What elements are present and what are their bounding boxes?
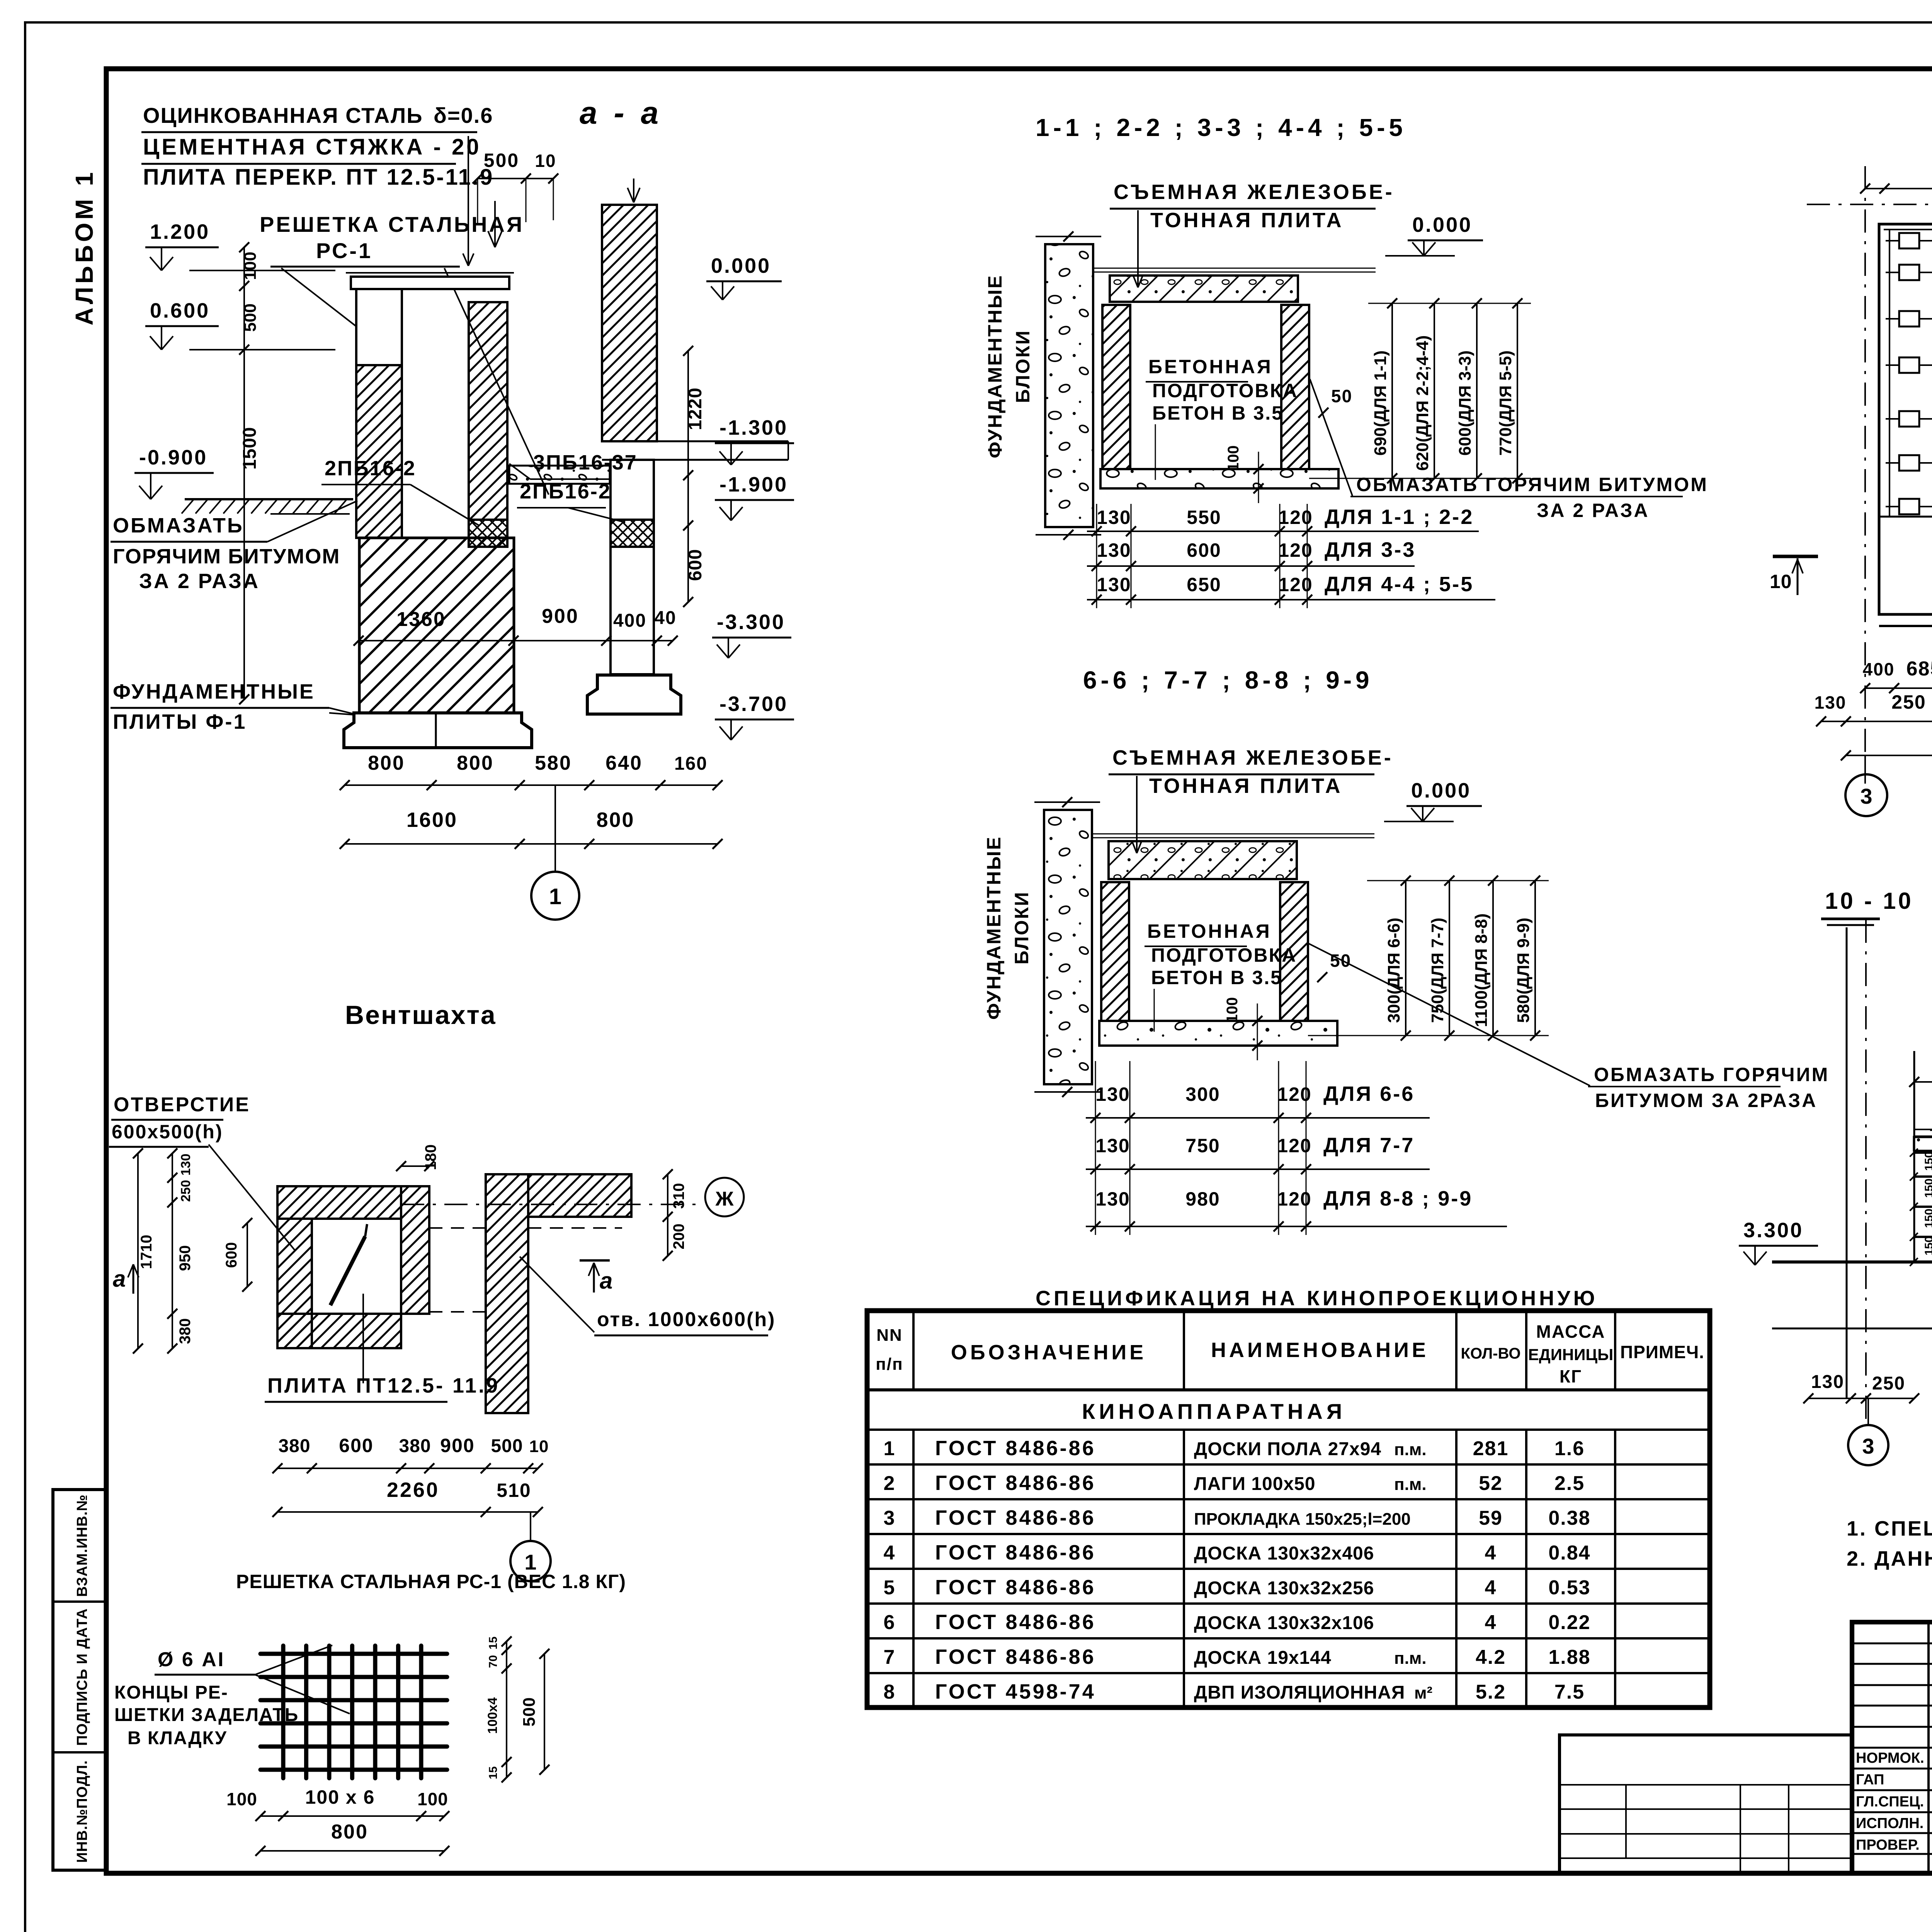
svg-text:ФУНДАМЕНТНЫЕ: ФУНДАМЕНТНЫЕ <box>983 836 1005 1020</box>
shaft left wall hatched <box>356 365 402 538</box>
svg-text:800: 800 <box>331 1821 368 1843</box>
svg-text:160: 160 <box>674 753 707 774</box>
svg-text:70: 70 <box>487 1655 500 1668</box>
svg-text:100х4: 100х4 <box>485 1697 500 1734</box>
svg-text:п.м.: п.м. <box>1394 1649 1427 1668</box>
axis circle Zh <box>401 1204 703 1205</box>
svg-text:1500: 1500 <box>240 427 260 470</box>
step dim ticks left <box>1910 1149 1918 1157</box>
svg-text:ШЕТКИ ЗАДЕЛАТЬ: ШЕТКИ ЗАДЕЛАТЬ <box>114 1705 299 1725</box>
svg-text:250: 250 <box>179 1180 193 1202</box>
svg-text:ОБМАЗАТЬ ГОРЯЧИМ: ОБМАЗАТЬ ГОРЯЧИМ <box>1594 1064 1829 1085</box>
svg-text:15: 15 <box>487 1766 500 1779</box>
svg-text:100: 100 <box>1225 446 1242 471</box>
left footing trapezoid <box>344 713 532 748</box>
svg-text:СЪЕМНАЯ ЖЕЛЕЗОБЕ-: СЪЕМНАЯ ЖЕЛЕЗОБЕ- <box>1112 746 1393 769</box>
svg-text:ТОННАЯ ПЛИТА: ТОННАЯ ПЛИТА <box>1149 774 1343 798</box>
svg-text:0.84: 0.84 <box>1548 1542 1590 1564</box>
svg-text:800: 800 <box>368 752 405 774</box>
grate bars <box>281 1646 286 1778</box>
svg-text:8: 8 <box>884 1681 896 1703</box>
svg-text:4: 4 <box>1485 1577 1497 1599</box>
svg-text:550: 550 <box>1187 507 1221 528</box>
svg-text:130: 130 <box>1097 539 1131 561</box>
floor slab with tile <box>1914 1137 1932 1151</box>
svg-text:ПОДПИСЬ И ДАТА: ПОДПИСЬ И ДАТА <box>74 1608 90 1746</box>
svg-text:640: 640 <box>605 752 643 774</box>
svg-text:КГ: КГ <box>1560 1366 1582 1386</box>
svg-text:-1.300: -1.300 <box>719 416 788 439</box>
svg-text:2. ДАННЫЙ ЛИСТ СМОТРЕТЬ СОВ: 2. ДАННЫЙ ЛИСТ СМОТРЕТЬ СОВМЕСТНО С ЛИСТ… <box>1847 1547 1932 1570</box>
upper floor boards line <box>1914 1129 1932 1130</box>
svg-text:620(ДЛЯ 2-2;4-4): 620(ДЛЯ 2-2;4-4) <box>1413 335 1432 471</box>
svg-text:130: 130 <box>1095 1188 1130 1210</box>
right footing trapezoid <box>587 675 681 714</box>
svg-text:КОЛ-ВО: КОЛ-ВО <box>1461 1345 1521 1362</box>
svg-text:ДОСКА 130х32х106: ДОСКА 130х32х106 <box>1194 1613 1374 1633</box>
ventshahta bottom dim row2 <box>277 1511 538 1513</box>
sec6699 top removable slab hatched <box>1109 841 1297 879</box>
svg-text:АЛЬБОМ 1: АЛЬБОМ 1 <box>70 169 98 325</box>
svg-text:10: 10 <box>529 1437 549 1456</box>
svg-text:ОЦИНКОВАННАЯ СТАЛЬ: ОЦИНКОВАННАЯ СТАЛЬ <box>143 103 423 128</box>
svg-text:ПОДГОТОВКА: ПОДГОТОВКА <box>1152 380 1298 401</box>
ventshahta bottom wall hatched <box>277 1314 401 1348</box>
svg-text:0.000: 0.000 <box>1412 213 1472 236</box>
sec6699 right vertical depth dims <box>1405 881 1406 1036</box>
sec1155 right channel wall hatched <box>1281 305 1309 469</box>
plan room bottom wall lines <box>1879 625 1932 627</box>
svg-text:ДЛЯ 6-6: ДЛЯ 6-6 <box>1323 1082 1415 1105</box>
svg-text:ИНВ.№ПОДЛ.: ИНВ.№ПОДЛ. <box>74 1760 90 1863</box>
sec1155 top removable slab hatched <box>1110 276 1298 302</box>
svg-text:БЕТОННАЯ: БЕТОННАЯ <box>1148 356 1273 378</box>
svg-text:4: 4 <box>1485 1611 1497 1634</box>
specification table kinoapparatnaya row line <box>867 1429 1710 1431</box>
svg-text:ДЛЯ 8-8 ; 9-9: ДЛЯ 8-8 ; 9-9 <box>1323 1187 1473 1210</box>
specification table outer border <box>867 1311 1710 1708</box>
svg-text:10 - 10: 10 - 10 <box>1825 888 1913 914</box>
svg-text:380: 380 <box>278 1436 310 1456</box>
svg-text:300: 300 <box>1185 1083 1220 1105</box>
svg-text:ГОСТ 8486-86: ГОСТ 8486-86 <box>935 1437 1096 1460</box>
svg-text:3: 3 <box>1862 1434 1874 1458</box>
svg-text:РС-1: РС-1 <box>316 238 372 263</box>
svg-text:130: 130 <box>1097 574 1131 595</box>
svg-text:NN: NN <box>876 1326 903 1345</box>
axis circle 1 section a-a <box>554 785 556 872</box>
svg-text:1220: 1220 <box>685 388 706 430</box>
svg-text:ПОДГОТОВКА: ПОДГОТОВКА <box>1151 944 1297 966</box>
section cut mark 10 left of plan <box>1773 555 1818 558</box>
svg-text:-0.900: -0.900 <box>139 446 207 469</box>
shaft left wall upper part <box>356 289 402 365</box>
svg-text:6: 6 <box>884 1611 896 1634</box>
ventshahta right tall wall hatched <box>486 1174 528 1413</box>
svg-text:300(ДЛЯ 6-6): 300(ДЛЯ 6-6) <box>1384 918 1403 1023</box>
svg-text:500: 500 <box>520 1697 539 1726</box>
section mark a bottom <box>580 1259 610 1262</box>
right column lower part <box>611 460 654 674</box>
svg-text:ГАП: ГАП <box>1856 1772 1884 1788</box>
svg-text:СПЕЦИФИКАЦИЯ НА КИНОПРОЕКЦИО: СПЕЦИФИКАЦИЯ НА КИНОПРОЕКЦИОННУЮ <box>1036 1287 1598 1310</box>
svg-text:750(ДЛЯ 7-7): 750(ДЛЯ 7-7) <box>1428 918 1447 1023</box>
svg-text:150: 150 <box>1923 1179 1932 1198</box>
right column hatched upper <box>602 205 657 441</box>
sec1155 left channel wall hatched <box>1102 305 1130 469</box>
svg-text:600х500(h): 600х500(h) <box>112 1121 223 1143</box>
svg-text:ОБОЗНАЧЕНИЕ: ОБОЗНАЧЕНИЕ <box>951 1341 1146 1364</box>
svg-text:100: 100 <box>1224 997 1241 1023</box>
ventshahta bottom dim chain <box>277 1468 538 1469</box>
sec6699 floor level thin lines <box>1092 833 1374 835</box>
plan room outer walls <box>1879 224 1932 614</box>
svg-text:ОБМАЗАТЬ: ОБМАЗАТЬ <box>113 514 244 537</box>
svg-text:0.22: 0.22 <box>1548 1611 1590 1634</box>
svg-text:950: 950 <box>177 1245 194 1271</box>
svg-text:150: 150 <box>1923 1236 1932 1255</box>
svg-text:600: 600 <box>685 549 706 581</box>
svg-text:ГОСТ 8486-86: ГОСТ 8486-86 <box>935 1471 1096 1495</box>
svg-text:1710: 1710 <box>138 1235 155 1269</box>
sec6699 left channel wall hatched <box>1101 882 1129 1021</box>
svg-text:200: 200 <box>670 1224 687 1250</box>
svg-text:РЕШЕТКА СТАЛЬНАЯ: РЕШЕТКА СТАЛЬНАЯ <box>260 212 524 236</box>
ventshahta opening dashed lines <box>429 1227 486 1229</box>
svg-text:130: 130 <box>1097 507 1131 528</box>
grate right dim chain outer <box>544 1654 545 1770</box>
svg-text:0.53: 0.53 <box>1548 1577 1590 1599</box>
svg-text:130: 130 <box>1811 1372 1844 1392</box>
sec1155 dim row witness verticals <box>1096 504 1097 608</box>
svg-text:100: 100 <box>417 1789 448 1809</box>
svg-text:ИСПОЛН.: ИСПОЛН. <box>1856 1815 1923 1832</box>
svg-text:ДОСКИ ПОЛА 27х94: ДОСКИ ПОЛА 27х94 <box>1194 1439 1381 1459</box>
grate right dim chain inner <box>506 1641 507 1777</box>
svg-text:ГОРЯЧИМ БИТУМОМ: ГОРЯЧИМ БИТУМОМ <box>113 545 340 568</box>
svg-text:ДЛЯ 3-3: ДЛЯ 3-3 <box>1325 538 1416 561</box>
svg-text:690(ДЛЯ 1-1): 690(ДЛЯ 1-1) <box>1371 350 1390 456</box>
svg-text:1-1 ; 2-2 ; 3-3 ; 4-4 ; 5-5: 1-1 ; 2-2 ; 3-3 ; 4-4 ; 5-5 <box>1036 114 1406 141</box>
plan vertical axis 3 dash-dot <box>1864 166 1866 784</box>
svg-text:650: 650 <box>1187 574 1221 595</box>
lintel block 2PB16-2 right crosshatch <box>611 520 654 547</box>
svg-text:отв. 1000х600(h): отв. 1000х600(h) <box>597 1308 776 1331</box>
ventshahta left dims <box>172 1153 173 1349</box>
note leader line steel sheet <box>468 136 469 266</box>
svg-text:ДОСКА 19х144: ДОСКА 19х144 <box>1194 1648 1332 1668</box>
svg-text:3.300: 3.300 <box>1743 1219 1803 1242</box>
svg-text:БЕТОН В 3.5: БЕТОН В 3.5 <box>1152 402 1284 424</box>
svg-text:1100(ДЛЯ 8-8): 1100(ДЛЯ 8-8) <box>1472 913 1491 1027</box>
svg-text:КИНОАППАРАТНАЯ: КИНОАППАРАТНАЯ <box>1082 1399 1346 1423</box>
svg-text:2: 2 <box>884 1472 896 1495</box>
ventshahta left wall hatched <box>277 1219 312 1348</box>
svg-text:БЛОКИ: БЛОКИ <box>1012 330 1034 403</box>
plan grid of floor squares <box>1886 240 1932 241</box>
stamp column left margin <box>53 1490 106 1870</box>
svg-text:281: 281 <box>1473 1437 1509 1460</box>
floor slab double lines right <box>602 440 788 442</box>
svg-text:2ПБ16-2: 2ПБ16-2 <box>520 480 611 503</box>
foundation block hatched <box>359 538 514 713</box>
svg-text:ПЛИТА ПЕРЕКР. ПТ 12.5-11.9: ПЛИТА ПЕРЕКР. ПТ 12.5-11.9 <box>143 165 494 190</box>
svg-text:СЪЕМНАЯ ЖЕЛЕЗОБЕ-: СЪЕМНАЯ ЖЕЛЕЗОБЕ- <box>1114 180 1395 204</box>
title block left part verticals <box>1927 1622 1930 1873</box>
plan axis E dash-dot line <box>1807 204 1932 205</box>
svg-text:2260: 2260 <box>387 1478 439 1502</box>
plan bottom dim chain row2 <box>1821 721 1932 722</box>
svg-text:500: 500 <box>241 303 260 332</box>
svg-text:50: 50 <box>1331 386 1352 406</box>
svg-text:15: 15 <box>487 1636 500 1649</box>
svg-text:ДОСКА 130х32х406: ДОСКА 130х32х406 <box>1194 1543 1374 1564</box>
sec1155 floor level thin lines <box>1093 268 1376 269</box>
sec1155 bottom concrete strip <box>1100 469 1338 488</box>
svg-text:БЛОКИ: БЛОКИ <box>1011 891 1032 964</box>
svg-text:150: 150 <box>1923 1209 1932 1228</box>
svg-text:7.5: 7.5 <box>1554 1681 1585 1703</box>
svg-text:10: 10 <box>535 151 556 171</box>
svg-text:380: 380 <box>399 1436 431 1456</box>
specification table header row line <box>867 1388 1710 1391</box>
svg-text:800: 800 <box>596 808 634 832</box>
svg-text:БЕТОННАЯ: БЕТОННАЯ <box>1147 920 1272 942</box>
svg-text:4: 4 <box>884 1542 896 1564</box>
svg-text:ПРОВЕР.: ПРОВЕР. <box>1856 1837 1920 1853</box>
title block extension table <box>1560 1735 1852 1873</box>
svg-text:ПЛИТА ПТ12.5- 11.9: ПЛИТА ПТ12.5- 11.9 <box>267 1374 500 1397</box>
svg-text:1.200: 1.200 <box>150 220 210 243</box>
svg-text:НОРМОК.: НОРМОК. <box>1856 1750 1924 1766</box>
left vertical dim line <box>243 247 245 699</box>
svg-text:900: 900 <box>542 605 579 628</box>
svg-text:ГЛ.СПЕЦ.: ГЛ.СПЕЦ. <box>1856 1794 1924 1810</box>
svg-text:3ПБ16-37: 3ПБ16-37 <box>533 451 638 474</box>
svg-text:250: 250 <box>1891 691 1926 713</box>
svg-text:δ=0.6: δ=0.6 <box>434 103 493 128</box>
specification table row lines <box>867 1463 1710 1466</box>
svg-text:Ø 6 АI: Ø 6 АI <box>158 1648 225 1671</box>
svg-text:1. СПЕЦИФИКАЦИЮ НА ВЕНТШАХТУ: 1. СПЕЦИФИКАЦИЮ НА ВЕНТШАХТУ СМОТРЕТЬ НА… <box>1847 1517 1932 1540</box>
svg-text:980: 980 <box>1185 1188 1220 1210</box>
sec6699 bottom concrete strip <box>1099 1021 1337 1046</box>
svg-text:п/п: п/п <box>876 1355 903 1374</box>
svg-text:-3.300: -3.300 <box>717 611 785 634</box>
svg-text:ВЗАМ.ИНВ.№: ВЗАМ.ИНВ.№ <box>74 1494 90 1597</box>
svg-text:ГОСТ 8486-86: ГОСТ 8486-86 <box>935 1645 1096 1668</box>
svg-text:510: 510 <box>497 1480 531 1501</box>
svg-text:ПЛИТЫ Ф-1: ПЛИТЫ Ф-1 <box>113 710 247 733</box>
svg-text:580(ДЛЯ 9-9): 580(ДЛЯ 9-9) <box>1514 918 1533 1023</box>
lintel block 2PB16-2 left crosshatch <box>469 520 507 547</box>
ventshahta partition hatched <box>401 1186 429 1314</box>
svg-text:МАССА: МАССА <box>1536 1321 1605 1342</box>
dim chain 600 260 260 260 <box>1914 1081 1932 1083</box>
svg-text:ЗА 2 РАЗА: ЗА 2 РАЗА <box>1537 500 1650 521</box>
specification table column lines <box>912 1311 915 1390</box>
svg-text:380: 380 <box>177 1318 194 1344</box>
svg-text:ОБМАЗАТЬ ГОРЯЧИМ БИТУМОМ: ОБМАЗАТЬ ГОРЯЧИМ БИТУМОМ <box>1356 474 1708 495</box>
svg-text:4: 4 <box>1485 1542 1497 1564</box>
svg-text:52: 52 <box>1479 1472 1503 1495</box>
svg-text:600: 600 <box>339 1435 373 1456</box>
top plate of shaft <box>346 272 514 274</box>
svg-text:а - а: а - а <box>580 95 662 131</box>
svg-text:900: 900 <box>440 1435 474 1456</box>
svg-text:150: 150 <box>1923 1151 1932 1171</box>
svg-text:130: 130 <box>1815 692 1847 713</box>
svg-text:-3.700: -3.700 <box>719 692 788 716</box>
sec1155 leader obmazat bitumom <box>1310 379 1352 496</box>
floor slab dotted between walls <box>509 466 610 484</box>
sec6699 leader obmazat bitumom <box>1309 944 1590 1086</box>
axis circle 3 section 10-10 <box>1867 1398 1869 1425</box>
svg-text:800: 800 <box>457 752 494 774</box>
svg-text:6-6 ; 7-7 ; 8-8 ; 9-9: 6-6 ; 7-7 ; 8-8 ; 9-9 <box>1083 666 1373 694</box>
svg-text:1360: 1360 <box>396 608 446 631</box>
svg-text:4.2: 4.2 <box>1476 1646 1506 1668</box>
grate leader lines <box>281 268 368 335</box>
svg-text:В КЛАДКУ: В КЛАДКУ <box>128 1728 227 1748</box>
svg-text:400: 400 <box>613 611 646 631</box>
svg-text:а: а <box>600 1268 612 1294</box>
sec6699 right channel wall hatched <box>1280 882 1308 1021</box>
sec6699 foundation blocks wall concrete <box>1044 810 1092 1084</box>
svg-text:ЗА 2 РАЗА: ЗА 2 РАЗА <box>139 570 260 593</box>
svg-text:ЕДИНИЦЫ: ЕДИНИЦЫ <box>1528 1345 1613 1364</box>
svg-text:БЕТОН В 3.5: БЕТОН В 3.5 <box>1151 967 1282 988</box>
svg-text:5.2: 5.2 <box>1476 1681 1506 1703</box>
svg-text:КОНЦЫ РЕ-: КОНЦЫ РЕ- <box>114 1682 228 1703</box>
svg-text:НАИМЕНОВАНИЕ: НАИМЕНОВАНИЕ <box>1211 1338 1429 1362</box>
svg-text:0.000: 0.000 <box>1411 779 1471 802</box>
svg-text:3: 3 <box>1860 784 1872 808</box>
svg-text:ГОСТ 8486-86: ГОСТ 8486-86 <box>935 1576 1096 1599</box>
left wall lines section 10-10 <box>1846 927 1848 1399</box>
svg-text:а: а <box>113 1266 126 1292</box>
svg-text:БИТУМОМ ЗА 2РАЗА: БИТУМОМ ЗА 2РАЗА <box>1595 1090 1817 1111</box>
svg-text:ДЛЯ 7-7: ДЛЯ 7-7 <box>1323 1134 1415 1157</box>
svg-text:ГОСТ 8486-86: ГОСТ 8486-86 <box>935 1506 1096 1529</box>
title block left part horizontals <box>1852 1643 1932 1645</box>
svg-text:600: 600 <box>223 1242 240 1268</box>
svg-text:ФУНДАМЕНТНЫЕ: ФУНДАМЕНТНЫЕ <box>113 680 315 703</box>
svg-text:100: 100 <box>241 252 260 280</box>
svg-text:ПРИМЕЧ.: ПРИМЕЧ. <box>1620 1342 1704 1362</box>
svg-text:ГОСТ 8486-86: ГОСТ 8486-86 <box>935 1541 1096 1564</box>
ventshahta top right arm hatched <box>528 1174 631 1217</box>
svg-text:1600: 1600 <box>406 808 457 832</box>
right vertical dim 1220 600 <box>687 351 689 602</box>
svg-text:м²: м² <box>1414 1684 1432 1702</box>
plan top dimension line <box>1865 188 1932 189</box>
svg-text:ПРОКЛАДКА 150х25;l=200: ПРОКЛАДКА 150х25;l=200 <box>1194 1510 1411 1529</box>
svg-text:0.000: 0.000 <box>711 254 771 277</box>
svg-text:770(ДЛЯ 5-5): 770(ДЛЯ 5-5) <box>1496 350 1515 456</box>
svg-text:ОТВЕРСТИЕ: ОТВЕРСТИЕ <box>114 1094 250 1116</box>
svg-text:750: 750 <box>1185 1135 1220 1156</box>
svg-text:400: 400 <box>1863 659 1895 679</box>
svg-text:РЕШЕТКА СТАЛЬНАЯ РС-1 (ВЕС 1: РЕШЕТКА СТАЛЬНАЯ РС-1 (ВЕС 1.8 КГ) <box>236 1571 626 1592</box>
svg-text:ЦЕМЕНТНАЯ СТЯЖКА - 20: ЦЕМЕНТНАЯ СТЯЖКА - 20 <box>143 134 481 160</box>
svg-text:ДЛЯ 1-1 ; 2-2: ДЛЯ 1-1 ; 2-2 <box>1325 505 1474 529</box>
grate bottom dim chain <box>260 1815 444 1817</box>
svg-text:5: 5 <box>884 1577 896 1599</box>
title block outer <box>1852 1622 1932 1873</box>
svg-text:ГОСТ 8486-86: ГОСТ 8486-86 <box>935 1611 1096 1634</box>
svg-text:10: 10 <box>1770 571 1792 592</box>
svg-text:600: 600 <box>1187 539 1221 561</box>
svg-text:ДОСКА 130х32х256: ДОСКА 130х32х256 <box>1194 1578 1374 1599</box>
svg-text:1: 1 <box>884 1437 896 1460</box>
svg-text:40: 40 <box>654 608 676 628</box>
ground floor line <box>1772 1260 1932 1264</box>
ground level dashed continuation <box>270 513 350 515</box>
svg-text:500: 500 <box>491 1436 523 1456</box>
shaft right wall hatched <box>469 302 507 520</box>
ventshahta plate diagonal <box>330 1236 365 1305</box>
svg-text:2ПБ16-2: 2ПБ16-2 <box>325 457 416 480</box>
sec1155 right vertical depth dims <box>1391 303 1393 478</box>
svg-text:685: 685 <box>1906 658 1932 680</box>
svg-text:1.6: 1.6 <box>1554 1437 1585 1460</box>
svg-text:ДЛЯ 4-4 ; 5-5: ДЛЯ 4-4 ; 5-5 <box>1325 573 1474 596</box>
svg-text:500: 500 <box>484 150 519 171</box>
svg-text:-1.900: -1.900 <box>719 473 788 496</box>
svg-text:ФУНДАМЕНТНЫЕ: ФУНДАМЕНТНЫЕ <box>984 274 1006 458</box>
sec6699 dim row witness verticals <box>1095 1061 1096 1235</box>
svg-text:0.38: 0.38 <box>1548 1507 1590 1529</box>
svg-text:ТОННАЯ ПЛИТА: ТОННАЯ ПЛИТА <box>1150 209 1344 232</box>
svg-text:130: 130 <box>179 1154 193 1176</box>
svg-text:250: 250 <box>1872 1373 1905 1394</box>
ventshahta top wall hatched <box>277 1186 401 1219</box>
ground line and hatch <box>185 498 353 500</box>
svg-text:50: 50 <box>1330 951 1351 971</box>
svg-text:1: 1 <box>549 884 561 909</box>
svg-text:3: 3 <box>884 1507 896 1529</box>
axis circle 1 ventshahta <box>530 1512 531 1541</box>
svg-text:600(ДЛЯ 3-3): 600(ДЛЯ 3-3) <box>1456 350 1475 456</box>
sec1155 foundation blocks wall concrete <box>1045 244 1093 527</box>
slab bottom line with breaks <box>1772 1328 1932 1330</box>
svg-text:ГОСТ 4598-74: ГОСТ 4598-74 <box>935 1680 1096 1703</box>
svg-text:п.м.: п.м. <box>1394 1475 1427 1494</box>
svg-text:ДВП ИЗОЛЯЦИОННАЯ: ДВП ИЗОЛЯЦИОННАЯ <box>1194 1682 1405 1703</box>
svg-text:ЛАГИ 100х50: ЛАГИ 100х50 <box>1194 1474 1316 1494</box>
svg-text:п.м.: п.м. <box>1394 1440 1427 1459</box>
svg-text:Вентшахта: Вентшахта <box>345 1000 497 1030</box>
svg-text:2.5: 2.5 <box>1554 1472 1585 1495</box>
svg-text:7: 7 <box>884 1646 896 1668</box>
svg-text:Ж: Ж <box>715 1188 734 1210</box>
svg-text:0.600: 0.600 <box>150 299 210 322</box>
svg-text:130: 130 <box>1095 1083 1130 1105</box>
svg-text:100 х 6: 100 х 6 <box>305 1786 375 1808</box>
right dims 310 200 <box>667 1174 668 1256</box>
arrow above right column <box>633 179 634 202</box>
plan axis circle 3 <box>1864 755 1866 775</box>
plan bottom dim chain row1 <box>1865 687 1932 689</box>
floor steps treads <box>1914 1151 1932 1154</box>
svg-text:100: 100 <box>226 1789 257 1809</box>
svg-text:59: 59 <box>1479 1507 1503 1529</box>
svg-text:130: 130 <box>1095 1135 1130 1156</box>
grate bottom dim 800 <box>260 1850 444 1852</box>
plan bottom dim chain row3 6300 <box>1846 755 1932 756</box>
svg-text:1.88: 1.88 <box>1548 1646 1590 1668</box>
